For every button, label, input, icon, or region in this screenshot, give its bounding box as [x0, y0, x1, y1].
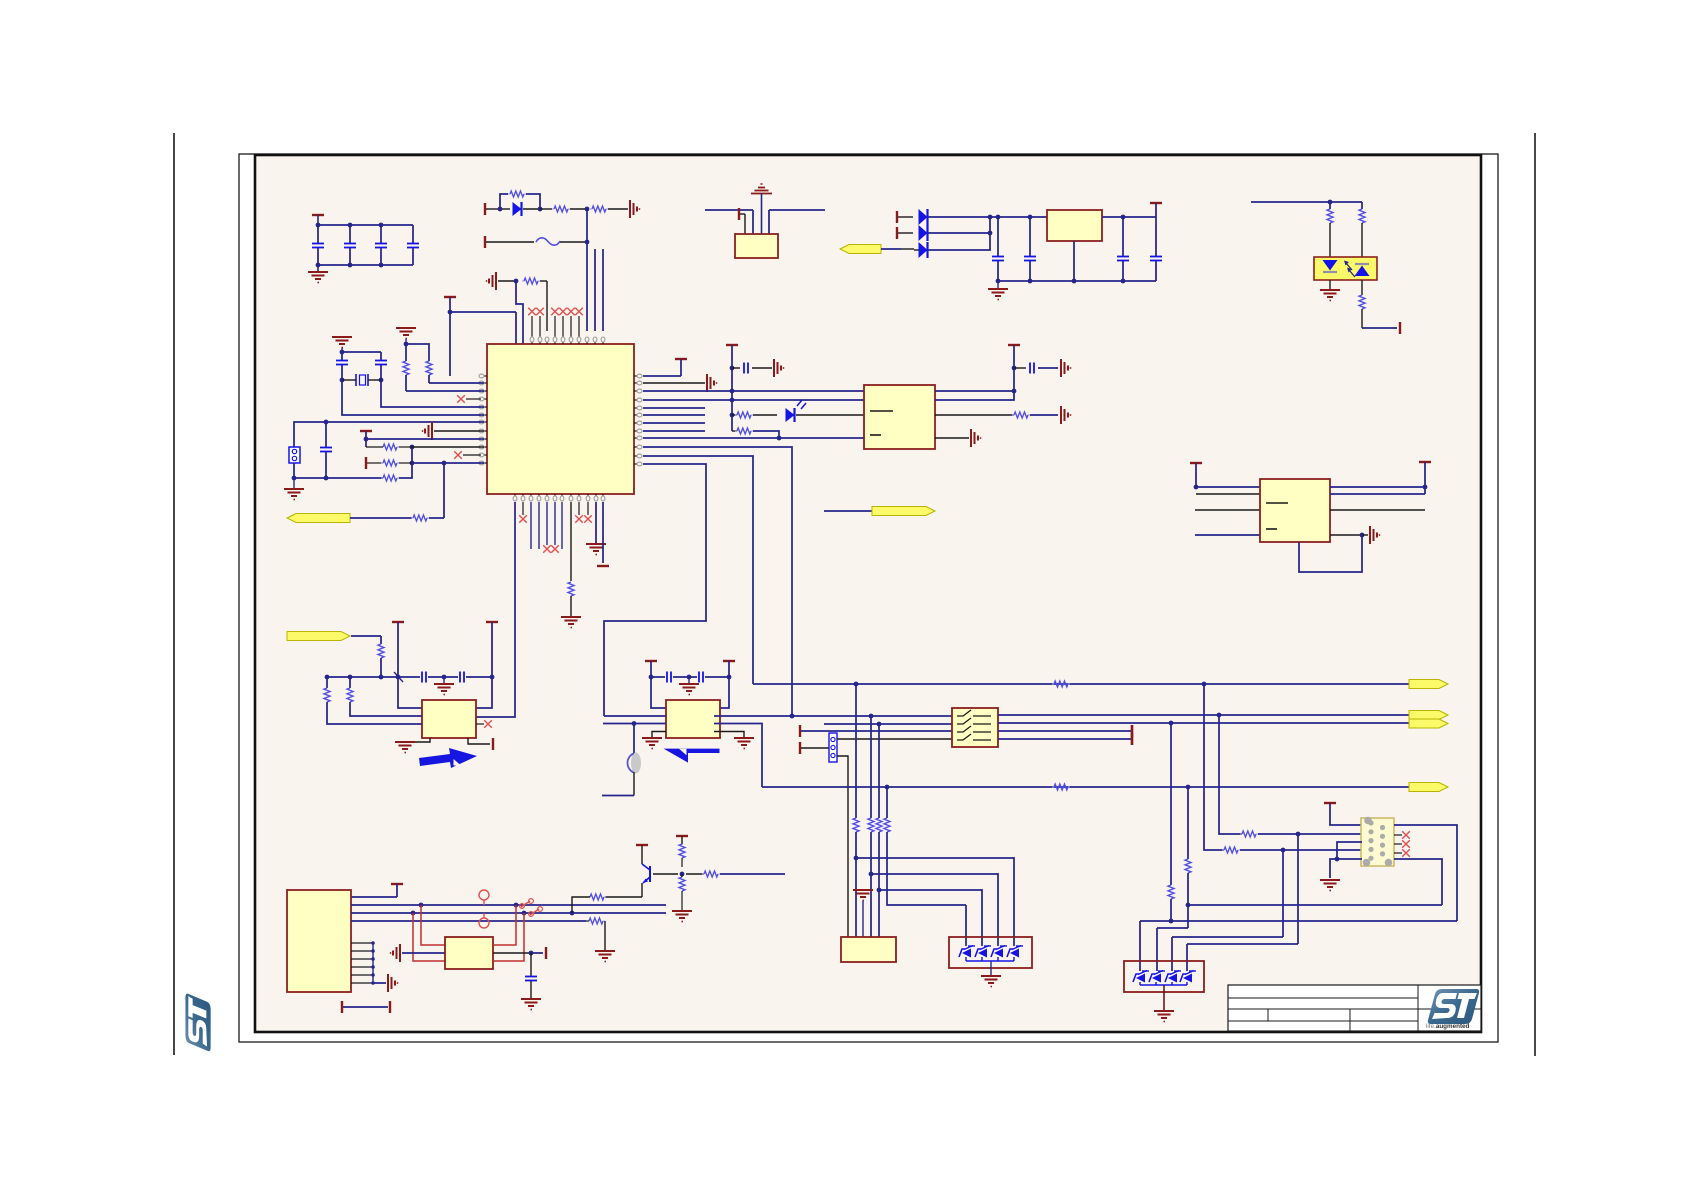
wire row400 — [643, 398, 864, 403]
optocoupler U4 — [1314, 257, 1377, 280]
zener D8 — [989, 946, 1007, 962]
wire stair1b — [1139, 921, 1141, 971]
flag rail684 — [1409, 680, 1448, 689]
power terminal P2 — [485, 236, 534, 248]
wire R3 to ground — [608, 208, 628, 210]
power bar right row376 — [643, 359, 687, 376]
diode D4 — [919, 225, 993, 241]
resistor R27 — [586, 918, 605, 950]
power bar T3 — [444, 297, 456, 314]
capacitor C10 — [992, 217, 1004, 283]
capacitor C12 — [1117, 217, 1129, 283]
stub row431 — [643, 430, 705, 432]
regulator U3 — [1047, 210, 1102, 241]
ground dsub — [1320, 880, 1340, 891]
wire U5 in1 — [1196, 486, 1260, 488]
wire rail716 right — [998, 713, 1409, 718]
wire rail684 — [753, 682, 1409, 687]
wire vreg gnd pin — [1072, 241, 1077, 283]
wire cap bank bottom rail — [316, 263, 413, 268]
power bar T5 — [1008, 345, 1020, 391]
capacitor C2 — [344, 225, 356, 265]
tvs array U8 — [1124, 961, 1204, 992]
capacitor C8 — [730, 359, 785, 377]
ST logo left margin — [185, 994, 210, 1052]
capacitor C17 — [699, 672, 703, 683]
resistor R12 led — [730, 412, 777, 418]
wire crystal top rail — [340, 350, 381, 355]
wire hdr pin1 — [837, 738, 952, 740]
capacitor C9 — [1014, 359, 1071, 377]
resistor R23 — [679, 844, 685, 867]
wire vreg in rail — [990, 215, 1047, 220]
power bar R23 — [676, 836, 688, 844]
power bar D4 — [897, 227, 913, 239]
wire opto top — [1251, 200, 1362, 205]
wire busA — [853, 684, 859, 937]
wire xb2 pins top — [651, 677, 729, 708]
x bottom pin6 — [551, 502, 559, 553]
resistor R21 — [1222, 847, 1362, 853]
ground J1 — [284, 478, 304, 500]
power bar row439 — [360, 431, 484, 447]
ground R11 — [561, 617, 581, 628]
wire red iso2 — [413, 913, 445, 961]
page left edge line — [173, 133, 175, 1055]
power bar dsub — [1324, 803, 1362, 825]
capacitor C11 — [1024, 217, 1036, 283]
power bar db9 — [351, 884, 403, 897]
wire node down to fuse net — [586, 209, 588, 241]
wire conn right — [769, 209, 825, 211]
wire stair1 — [1140, 919, 1457, 924]
ground vreg — [988, 281, 1008, 300]
wire U5 out1 — [1330, 485, 1427, 490]
wire tvs1 in2 — [879, 890, 982, 946]
zener D7 — [973, 946, 991, 962]
ground tvs2 — [1154, 1011, 1174, 1022]
wire dsub loop1 — [1394, 825, 1457, 921]
wire R4 to pin — [546, 281, 548, 331]
resistor R10 — [411, 463, 444, 521]
flag rail787 — [1409, 783, 1448, 792]
capacitor C5 — [336, 352, 348, 382]
power terminal P1 — [485, 203, 500, 215]
wire U5 in2 — [1196, 493, 1260, 495]
wire tvs1 common — [966, 961, 1014, 975]
wire jog to MCU pin — [516, 281, 523, 344]
power bar row463 — [366, 457, 383, 469]
wire dsub row842 — [1335, 842, 1362, 861]
jumper wire below db9 — [342, 1001, 390, 1013]
wire row391 — [643, 389, 864, 394]
zener D13 — [1178, 971, 1196, 986]
capacitor C14 — [422, 672, 426, 683]
x dsub right3 — [1394, 849, 1410, 857]
wire Q1 base — [653, 872, 684, 877]
wire iso out — [493, 947, 546, 959]
testpoint TP2 — [479, 913, 489, 928]
wire stair4 — [1187, 944, 1298, 971]
wire net row464 — [604, 464, 706, 716]
transceiver U5 — [1260, 479, 1330, 542]
wire U5 in3 — [1195, 509, 1260, 511]
title block — [1228, 985, 1481, 1031]
x bottom pin2 — [519, 502, 527, 523]
resistor R14 — [935, 406, 1071, 424]
MCU U1 top pins — [528, 308, 605, 344]
MCU U1 left pins — [479, 374, 487, 465]
wire row438 — [643, 437, 864, 439]
x bottom pin9 — [575, 502, 583, 523]
svg-text:life.augmented: life.augmented — [1426, 1023, 1470, 1030]
power bar D3 — [897, 211, 913, 223]
transistor Q1 — [642, 864, 650, 897]
ground xb2 rail — [679, 675, 699, 695]
wire T3 to MCU — [450, 312, 516, 376]
ground right row383 — [643, 374, 717, 392]
wire cap bank top rail — [316, 223, 413, 228]
header J3 — [829, 733, 837, 762]
blue arrow annotation 2 — [664, 749, 720, 763]
ST logo title block — [1426, 989, 1479, 1030]
wire vreg bottom rail — [998, 280, 1156, 282]
wire U5 gnd — [1330, 526, 1380, 544]
capacitor C13 — [1150, 217, 1162, 281]
schematic sheet outer border — [239, 154, 1498, 1042]
wire xb2 row724 — [603, 721, 762, 787]
capacitor C16 — [667, 672, 671, 683]
resistor R6 — [426, 361, 484, 383]
wire busC — [876, 724, 882, 937]
connector J2 — [735, 234, 778, 258]
wire rail724 — [824, 722, 952, 727]
wire db9 row905 — [351, 903, 666, 908]
ground header — [853, 890, 873, 937]
capacitor C6 — [375, 352, 387, 382]
blue arrow annotation 1 — [419, 748, 477, 768]
zener D11 — [1147, 971, 1165, 986]
wire bottom pin1 long — [476, 502, 515, 717]
wire net row456 — [643, 456, 753, 684]
wire hdr pin3 — [837, 756, 848, 937]
stub row423 — [643, 422, 705, 424]
ground tvs1 — [981, 976, 1001, 987]
x bottom pin10 — [584, 502, 592, 523]
wire vertE — [1168, 723, 1174, 921]
ground R24 — [672, 911, 692, 922]
db9 shell pins — [351, 941, 398, 992]
resistor R15 — [1327, 202, 1333, 257]
stub row415 — [643, 414, 705, 416]
stub bottom pin7 — [561, 502, 563, 549]
wire VDD column C — [602, 249, 604, 331]
resistor R11 boot — [568, 502, 574, 616]
wire stair3 — [1172, 937, 1283, 971]
wire xb1 pins top — [398, 677, 492, 708]
wire net row447 — [643, 447, 792, 716]
ground MCU analog — [486, 272, 519, 290]
resistor R9 — [381, 460, 484, 466]
wire conn pins — [753, 210, 769, 234]
capacitor C15 — [460, 672, 464, 683]
resistor R18 — [378, 636, 384, 679]
ferrite bead FB1 — [602, 724, 641, 796]
resistor R22 — [1240, 831, 1362, 837]
x bottom pin5 — [543, 502, 551, 553]
power VDD bar cap bank — [312, 215, 324, 225]
resistor R25 base — [686, 871, 785, 877]
power xb1 right — [468, 738, 493, 750]
MCU U1 — [487, 344, 634, 494]
wire tvs1 in1 — [965, 905, 967, 946]
MCU U1 bottom pins — [513, 494, 605, 501]
resistor R16 — [1359, 202, 1365, 257]
oscillator block X1 — [422, 700, 476, 738]
zener D6 — [957, 946, 975, 962]
wire rail905b — [1188, 904, 1442, 906]
wire c6 top — [0, 0, 1, 1]
zener D9 — [1005, 946, 1023, 962]
wire Q1 emitter — [605, 896, 642, 898]
crystal circuit ground — [332, 337, 352, 352]
x dsub right1 — [1394, 831, 1410, 839]
wire tvs1 in4 — [856, 858, 1014, 946]
flag VIN — [840, 245, 914, 254]
ground xb1 left — [395, 738, 430, 753]
wire xb1 left row3 — [324, 675, 422, 724]
x dsub right2 — [1394, 840, 1410, 848]
wire busB — [868, 716, 874, 937]
oscillator block X2 — [666, 700, 720, 738]
resistor R7 — [381, 445, 414, 481]
jumper glyph 2 — [529, 907, 543, 917]
power bar U5 out — [1419, 462, 1431, 494]
wire U2 out rows — [935, 389, 1016, 400]
wire rail716 — [714, 714, 952, 719]
wire red iso1 — [421, 905, 445, 945]
resistor R24 — [679, 874, 685, 910]
wire stair2 — [1157, 928, 1188, 971]
ground xb1 rail — [434, 677, 454, 695]
resistor R8 — [366, 444, 484, 450]
wire vertF — [1185, 787, 1191, 928]
tvs array U7 — [949, 937, 1032, 968]
wire db9 row913 — [351, 911, 666, 916]
antenna ground — [751, 184, 772, 234]
wire VDD column A — [586, 242, 588, 331]
power bar rails — [1131, 725, 1133, 745]
wire row rail 478 — [292, 463, 383, 480]
schematic sheet frame — [255, 155, 1481, 1032]
wire U5 loop — [1299, 535, 1362, 572]
wire U5 out2 — [1330, 493, 1425, 495]
wire diode anode — [498, 207, 510, 212]
page right edge line — [1534, 133, 1536, 1056]
stub bottom pin3 — [530, 502, 532, 549]
header J4 — [841, 937, 896, 962]
zener D10 — [1131, 971, 1149, 986]
wire dsub row859 — [1330, 859, 1362, 878]
wire xb2 row716 — [604, 715, 666, 717]
wire rail731 right — [998, 730, 1131, 732]
testpoint TP1 — [479, 890, 489, 905]
wire vreg out — [1102, 215, 1156, 220]
capacitor C7 — [320, 422, 332, 480]
isolator U9 — [445, 937, 493, 969]
db9 connector J6 — [287, 890, 351, 992]
wire vertJ — [1297, 834, 1299, 944]
capacitor C18 — [525, 953, 537, 998]
wire pullup rail — [406, 344, 429, 361]
wire osc-out — [342, 380, 484, 415]
jumper glyph 1 — [520, 899, 534, 909]
crystal Y1 — [342, 374, 381, 386]
wire row 422 — [294, 420, 484, 447]
zener D12 — [1163, 971, 1181, 986]
power bar hdr1 — [800, 725, 952, 737]
x xb1 right pin — [476, 720, 492, 728]
power bar crystal rail right — [486, 622, 498, 677]
power bar hdr2 — [800, 742, 829, 754]
power bar xb2R — [723, 661, 735, 679]
ground xb2 left — [642, 732, 666, 749]
power bar vreg out — [1150, 203, 1162, 217]
resistor R20 — [1052, 784, 1070, 790]
diode D5 — [914, 215, 992, 258]
wire xb2 rail — [651, 676, 729, 678]
wire U5 in4 — [1195, 534, 1260, 536]
wire tvs2 common — [1140, 985, 1187, 1010]
capacitor C1 — [312, 225, 324, 265]
resistor R2 — [552, 206, 570, 212]
resistor R19 — [1052, 681, 1070, 687]
wire red iso4 — [493, 913, 524, 961]
flag comparator out — [824, 507, 935, 516]
wire red iso3 — [493, 905, 516, 945]
ground MCU row431 — [422, 422, 484, 440]
resistor R4 — [522, 278, 547, 284]
ground bottom pin11 — [586, 502, 606, 555]
resistor R17 — [1359, 280, 1365, 328]
diode D3 — [919, 209, 991, 225]
resistor R3 — [590, 206, 608, 212]
resistor R1 bypass — [500, 191, 540, 209]
ground C18 — [521, 999, 541, 1010]
wire xb1 rail — [394, 672, 494, 682]
comparator U2 — [864, 385, 935, 449]
filter box U6 — [952, 708, 998, 747]
flag rail716 — [1409, 711, 1448, 720]
ground xb2 right — [714, 732, 754, 749]
wire vertG — [1204, 684, 1224, 850]
wire rail787 — [762, 785, 1409, 790]
wire db9 row921 — [351, 920, 586, 922]
wire opto out — [1362, 322, 1400, 334]
stub bottom pin4 — [538, 502, 540, 549]
flag xb2 input — [287, 632, 381, 641]
MCU U1 right pins — [634, 374, 642, 466]
ground pullup cluster — [396, 328, 416, 346]
LED D2 — [786, 400, 865, 422]
power bar T4 comparator — [726, 345, 738, 431]
wire U5 out3 — [1330, 509, 1425, 511]
wire tvs1 in3 — [871, 874, 998, 946]
wire R2 to node — [570, 207, 589, 212]
ground cap bank — [308, 265, 328, 283]
stub row408 — [643, 407, 705, 409]
ground right of R3 — [630, 200, 640, 218]
connector J1 2pin — [289, 447, 300, 463]
capacitor C3 — [375, 225, 387, 265]
wire VDD column B — [594, 249, 596, 331]
wire xb1 left row2 — [347, 675, 422, 716]
wire osc-in — [381, 380, 484, 407]
wire conn left — [705, 209, 753, 211]
ground iso left — [390, 944, 445, 962]
wire to R2 — [540, 208, 552, 210]
wire rail739 right — [998, 738, 1131, 740]
flag rail724 — [1409, 719, 1448, 728]
wire vertH — [1219, 715, 1242, 834]
x no-connect left pin2 — [454, 451, 481, 459]
ground U2 pin — [935, 429, 981, 447]
ground R27 — [595, 951, 615, 962]
power bar Q1 — [636, 845, 648, 864]
x no-connect left pin — [457, 395, 481, 403]
resistor R5 — [403, 361, 484, 391]
power bar U5 — [1190, 463, 1202, 489]
wire vertI — [1282, 850, 1284, 937]
fuse F1 — [536, 238, 589, 245]
capacitor C4 — [407, 225, 419, 265]
power bar conn — [739, 208, 745, 234]
power bar bottom pin12 — [597, 502, 609, 566]
wire mcu pin1 link — [0, 0, 1, 1]
power bar xb1 — [392, 622, 404, 677]
wire rail724 right — [998, 721, 1409, 726]
wire busD — [884, 787, 966, 905]
power bar xb2L — [645, 661, 657, 679]
wire dsub loop2 — [1394, 859, 1442, 905]
diode D1 — [513, 202, 543, 216]
resistor R26 — [572, 894, 606, 913]
ground opto — [1320, 280, 1340, 301]
resistor R13 — [732, 428, 781, 440]
dsub J5 — [1361, 817, 1394, 867]
flag NRST — [287, 514, 412, 523]
